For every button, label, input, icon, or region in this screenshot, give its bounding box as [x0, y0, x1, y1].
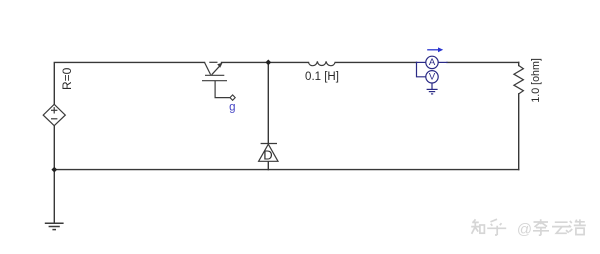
wire voltmeter branch	[417, 62, 448, 76]
node: junction dot top (switch node)	[265, 60, 271, 66]
wire diode branch lower	[267, 161, 269, 169]
MOSFET Q1	[202, 62, 230, 97]
svg-text:1.0 [ohm]: 1.0 [ohm]	[530, 58, 542, 103]
svg-text:R=0: R=0	[60, 67, 74, 90]
svg-text:A: A	[429, 57, 436, 68]
ground (main, bottom left)	[45, 223, 64, 229]
wire diode branch upper	[267, 62, 269, 143]
wire right vertical top into resistor	[518, 62, 520, 65]
wire top rail: inductor to voltmeter branch	[335, 61, 416, 63]
wire bottom rail	[54, 169, 518, 171]
inductor L1	[309, 61, 336, 65]
diode D1	[259, 144, 278, 162]
wire right vertical bottom from resistor	[518, 94, 520, 170]
voltmeter V1	[426, 71, 438, 83]
wire top rail mid: MOSFET source to inductor	[222, 61, 309, 63]
svg-text:D: D	[263, 147, 272, 162]
svg-text:g: g	[229, 102, 235, 114]
resistor R1 zigzag	[514, 66, 524, 94]
watermark	[471, 219, 586, 235]
wire top rail left: source to MOSFET drain	[54, 62, 204, 104]
current direction arrow	[427, 47, 443, 52]
controlled voltage source V diamond	[43, 104, 65, 125]
svg-text:0.1 [H]: 0.1 [H]	[305, 71, 339, 83]
ground (voltmeter reference)	[427, 83, 438, 94]
gate terminal diamond	[230, 95, 235, 100]
wire left vertical below source to ground	[53, 126, 55, 223]
ammeter A1	[426, 56, 438, 68]
svg-text:@: @	[517, 221, 532, 238]
svg-text:V: V	[429, 72, 436, 83]
wire top rail right: ammeter to resistor	[447, 61, 519, 63]
node: junction dot bottom left	[51, 167, 57, 173]
